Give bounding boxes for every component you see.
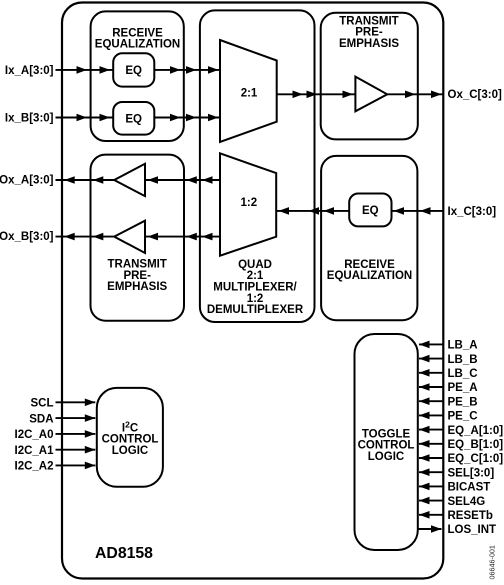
svg-text:EQ_A[1:0]: EQ_A[1:0] <box>448 425 504 437</box>
svg-text:I2C: I2C <box>122 420 138 435</box>
svg-text:CONTROL: CONTROL <box>102 434 159 446</box>
svg-text:PRE-: PRE- <box>355 26 383 38</box>
svg-text:PE_A: PE_A <box>448 382 478 394</box>
svg-text:I2C_A1: I2C_A1 <box>15 445 55 457</box>
svg-text:LOS_INT: LOS_INT <box>448 524 497 536</box>
svg-text:RESETb: RESETb <box>448 510 493 522</box>
svg-text:EQUALIZATION: EQUALIZATION <box>95 38 180 50</box>
svg-text:Ix_C[3:0]: Ix_C[3:0] <box>448 206 497 218</box>
svg-text:EMPHASIS: EMPHASIS <box>107 281 167 293</box>
svg-text:2:1: 2:1 <box>247 270 264 282</box>
svg-text:PE_B: PE_B <box>448 396 478 408</box>
svg-text:1:2: 1:2 <box>247 293 264 305</box>
svg-text:EQ: EQ <box>125 65 142 77</box>
svg-text:SEL[3:0]: SEL[3:0] <box>448 467 495 479</box>
svg-text:EQ: EQ <box>125 114 142 126</box>
svg-text:Ox_B[3:0]: Ox_B[3:0] <box>0 231 54 243</box>
svg-text:EQ_C[1:0]: EQ_C[1:0] <box>448 453 504 465</box>
svg-text:QUAD: QUAD <box>238 259 272 271</box>
svg-text:Ox_A[3:0]: Ox_A[3:0] <box>0 174 54 186</box>
svg-text:LB_A: LB_A <box>448 340 478 352</box>
svg-text:06646-001: 06646-001 <box>487 545 496 579</box>
svg-text:SDA: SDA <box>29 413 53 425</box>
svg-text:SCL: SCL <box>31 398 54 410</box>
svg-text:PRE-: PRE- <box>123 270 151 282</box>
svg-text:2:1: 2:1 <box>241 88 258 100</box>
svg-text:I2C_A0: I2C_A0 <box>15 429 54 441</box>
svg-text:EQ: EQ <box>362 205 379 217</box>
svg-text:LB_B: LB_B <box>448 354 478 366</box>
svg-text:LB_C: LB_C <box>448 368 478 380</box>
svg-text:LOGIC: LOGIC <box>112 445 148 457</box>
svg-text:CONTROL: CONTROL <box>358 440 415 452</box>
svg-text:LOGIC: LOGIC <box>368 451 404 463</box>
svg-text:PE_C: PE_C <box>448 411 478 423</box>
svg-text:I2C_A2: I2C_A2 <box>15 461 54 473</box>
svg-text:AD8158: AD8158 <box>95 545 153 562</box>
svg-text:Ix_B[3:0]: Ix_B[3:0] <box>5 113 54 125</box>
svg-text:EQ_B[1:0]: EQ_B[1:0] <box>448 439 504 451</box>
svg-text:1:2: 1:2 <box>240 197 257 209</box>
svg-text:SEL4G: SEL4G <box>448 496 486 508</box>
svg-text:MULTIPLEXER/: MULTIPLEXER/ <box>213 281 297 293</box>
svg-text:Ix_A[3:0]: Ix_A[3:0] <box>5 65 54 77</box>
svg-text:BICAST: BICAST <box>448 482 491 494</box>
svg-text:EMPHASIS: EMPHASIS <box>339 38 399 50</box>
svg-text:Ox_C[3:0]: Ox_C[3:0] <box>448 89 502 101</box>
svg-text:DEMULTIPLEXER: DEMULTIPLEXER <box>207 304 304 316</box>
svg-text:EQUALIZATION: EQUALIZATION <box>327 270 412 282</box>
